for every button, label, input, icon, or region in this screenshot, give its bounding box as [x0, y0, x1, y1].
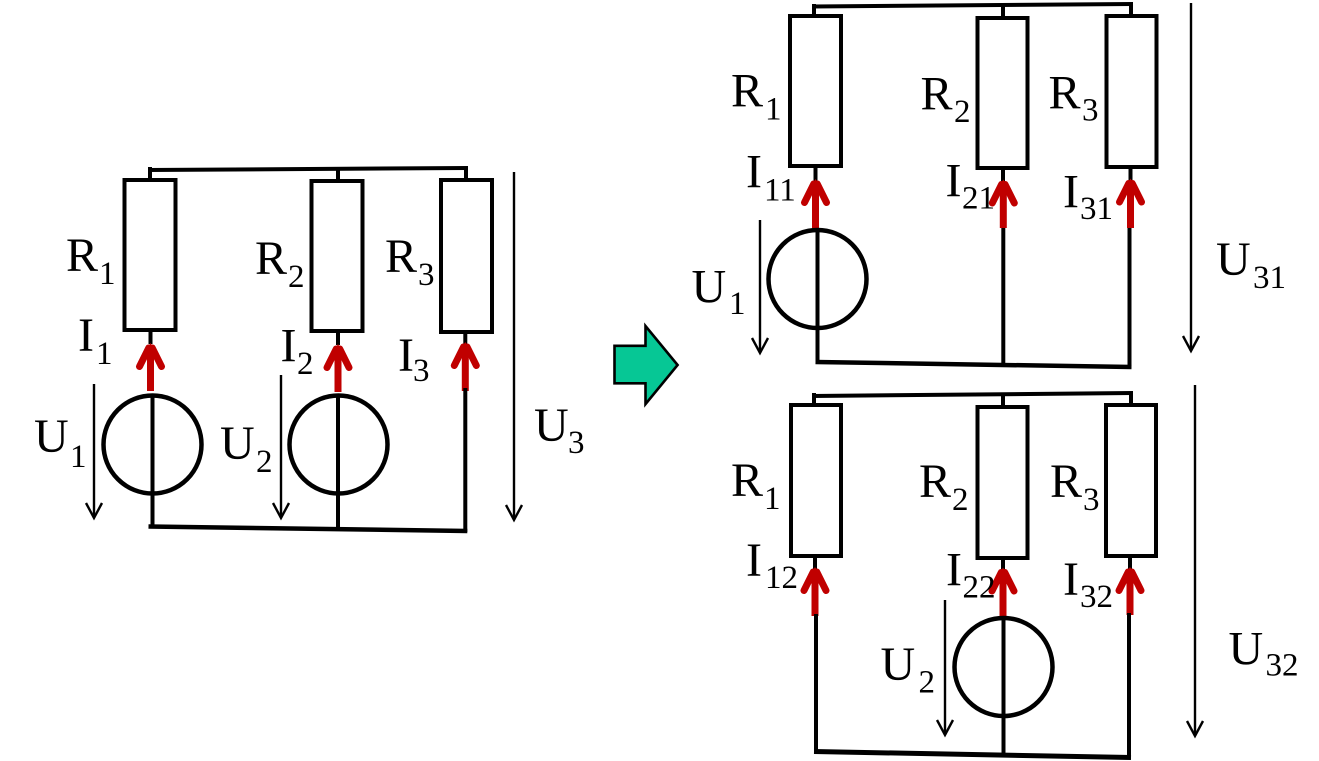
current arrow I32 (red) [1119, 567, 1141, 615]
svg-text:1: 1 [729, 286, 746, 322]
voltage arrow U1 (thin, down, top-right) [752, 220, 768, 353]
resistor R2 (bottom-right circuit) [978, 407, 1028, 558]
label I32 [1063, 553, 1113, 615]
svg-text:11: 11 [764, 173, 796, 209]
label U31 [1216, 233, 1286, 296]
current arrow I22 (red) [992, 568, 1014, 618]
svg-text:I: I [746, 534, 762, 587]
wire top bus (bottom-right circuit) [812, 393, 1133, 396]
svg-text:2: 2 [297, 346, 314, 382]
wire stub top-right to R3 [1129, 4, 1133, 18]
wire stub below R1 [149, 330, 153, 344]
svg-text:3: 3 [413, 353, 430, 389]
label R1 (bottom-right circuit) [731, 454, 781, 517]
svg-text:22: 22 [963, 570, 996, 606]
wire bottom bus (top-right circuit) [816, 362, 1132, 367]
voltage source U2 circle (left circuit) [290, 396, 388, 494]
svg-text:U: U [692, 261, 727, 314]
svg-text:U: U [220, 417, 255, 470]
svg-text:I: I [1063, 553, 1079, 606]
wire stub below R2 [336, 331, 340, 345]
wire stub top-right to R3 [1129, 393, 1133, 407]
svg-text:R: R [255, 232, 287, 285]
label R2 (left circuit) [255, 232, 305, 295]
wire stub top-left to R1 [148, 167, 152, 181]
resistor R1 (top-right circuit) [790, 16, 841, 166]
wire stub below R3 [463, 332, 467, 344]
voltage arrow U1 (thin, down) [86, 384, 102, 518]
svg-text:I: I [398, 329, 414, 382]
label U2 (left circuit) [220, 417, 273, 480]
svg-text:1: 1 [99, 256, 116, 292]
svg-text:R: R [731, 65, 763, 118]
wire I31 branch down [1128, 228, 1132, 368]
current arrow I21 (red) [992, 180, 1014, 229]
svg-text:R: R [1050, 455, 1082, 508]
svg-text:31: 31 [1253, 260, 1286, 296]
wire I21 branch down [1001, 228, 1005, 366]
label R2 (top-right circuit) [921, 68, 971, 131]
current arrow I3 (red) [454, 342, 476, 391]
svg-text:1: 1 [764, 481, 781, 517]
wire through source U1 [151, 394, 155, 529]
svg-text:R: R [921, 68, 953, 121]
current arrow I2 (red) [327, 344, 349, 392]
label I1 [78, 309, 113, 372]
wire stub top-left to R1 [812, 393, 816, 407]
label I22 [946, 544, 996, 606]
wire stub below R2 (top-right) [1001, 168, 1005, 182]
label I2 [281, 320, 314, 383]
svg-text:12: 12 [765, 560, 798, 596]
svg-text:U: U [34, 410, 69, 463]
svg-text:2: 2 [952, 482, 969, 518]
svg-text:1: 1 [765, 92, 782, 128]
resistor R3 (left circuit) [441, 180, 492, 332]
resistor R1 (left circuit) [125, 180, 176, 330]
label I21 [946, 155, 996, 217]
wire top bus (left circuit) [148, 168, 468, 170]
wire top bus (top-right circuit) [812, 4, 1133, 7]
green block arrow [615, 326, 678, 404]
wire I3 branch down [463, 388, 467, 532]
svg-text:2: 2 [954, 94, 971, 130]
svg-text:2: 2 [919, 665, 936, 701]
svg-text:3: 3 [1082, 93, 1099, 129]
voltage source U2 circle (bottom-right circuit) [955, 618, 1053, 716]
wire stub top-right to R3 [464, 167, 468, 181]
wire through source U2 down to bottom bus [1002, 618, 1006, 758]
current arrow I11 (red) [805, 179, 827, 228]
resistor R1 (bottom-right circuit) [791, 405, 841, 556]
svg-text:I: I [946, 155, 962, 208]
voltage arrow U3 (thin, down) [506, 172, 522, 520]
wire bottom bus (left circuit) [149, 527, 468, 532]
wire stub top-left to R1 [812, 4, 816, 18]
wire stub below R1 (top-right) [814, 166, 818, 181]
svg-text:32: 32 [1080, 579, 1113, 615]
svg-text:3: 3 [1083, 482, 1100, 518]
svg-text:I: I [78, 309, 94, 362]
wire through source U2 [336, 394, 340, 531]
wire stub top-middle to R2 [1001, 393, 1005, 409]
svg-text:U: U [1229, 623, 1264, 676]
label R1 (top-right circuit) [731, 65, 782, 128]
voltage arrow U31 (thin, down) [1183, 3, 1199, 351]
label I12 [746, 534, 798, 596]
label R3 (top-right circuit) [1049, 67, 1099, 129]
wire through source U1 down to bottom bus [816, 229, 820, 365]
svg-text:U: U [881, 638, 916, 691]
label R1 (left circuit) [66, 229, 116, 292]
current arrow I31 (red) [1120, 179, 1142, 229]
current arrow I1 (red) [140, 343, 162, 391]
svg-text:R: R [731, 454, 763, 507]
wire stub below R2 (bottom-right) [1001, 558, 1005, 571]
svg-text:32: 32 [1266, 648, 1299, 684]
svg-text:R: R [385, 230, 417, 283]
voltage source U1 circle (top-right circuit) [769, 230, 867, 328]
label I11 [746, 146, 796, 209]
wire I32 branch down [1127, 613, 1131, 759]
resistor R2 (top-right circuit) [978, 18, 1028, 168]
label I31 [1063, 166, 1113, 228]
current arrow I12 (red) [804, 567, 826, 616]
wire bottom bus (bottom-right circuit) [814, 752, 1131, 758]
voltage arrow U2 (thin, down) [273, 375, 289, 518]
label R3 (left circuit) [385, 230, 435, 293]
svg-text:21: 21 [962, 181, 995, 217]
voltage arrow U32 (thin, down) [1187, 385, 1203, 736]
svg-text:I: I [1063, 166, 1079, 219]
wire stub below R3 (bottom-right) [1128, 556, 1132, 570]
svg-text:R: R [1049, 67, 1081, 120]
label R3 (bottom-right circuit) [1050, 455, 1100, 518]
resistor R3 (bottom-right circuit) [1106, 405, 1156, 556]
svg-text:I: I [746, 146, 762, 199]
label U1 (left circuit) [34, 410, 87, 475]
resistor R2 (left circuit) [312, 181, 363, 331]
wire stub below R3 (top-right) [1129, 167, 1133, 181]
svg-text:I: I [281, 320, 297, 373]
svg-text:3: 3 [418, 257, 435, 293]
svg-text:31: 31 [1080, 191, 1113, 227]
svg-text:U: U [1216, 233, 1251, 286]
svg-text:1: 1 [70, 439, 87, 475]
label R2 (bottom-right circuit) [919, 455, 969, 518]
svg-text:U: U [534, 399, 569, 452]
svg-text:1: 1 [96, 336, 113, 372]
wire I12 branch down [814, 614, 818, 754]
label U32 [1229, 623, 1299, 684]
svg-text:3: 3 [568, 425, 585, 461]
svg-text:I: I [946, 544, 962, 597]
voltage arrow U2 (thin, down, bottom-right) [937, 600, 953, 735]
label I3 [398, 329, 430, 389]
svg-text:R: R [919, 455, 951, 508]
wire stub top-middle to R2 [1001, 4, 1005, 19]
svg-text:2: 2 [256, 444, 273, 480]
svg-text:R: R [66, 229, 98, 282]
wire stub top-middle to R2 [336, 167, 340, 182]
wire stub below R1 (bottom-right) [813, 556, 817, 570]
svg-text:2: 2 [288, 259, 305, 295]
voltage source U1 circle (left circuit) [104, 396, 202, 494]
resistor R3 (top-right circuit) [1107, 16, 1157, 167]
label U1 (top-right circuit) [692, 261, 746, 323]
label U3 [534, 399, 585, 461]
label U2 (bottom-right circuit) [881, 638, 936, 701]
